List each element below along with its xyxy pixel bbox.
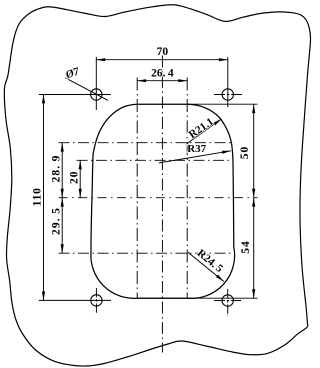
dim 29.5 line <box>61 198 63 254</box>
dim 26.4 line <box>137 80 187 82</box>
dim 70 line <box>96 59 228 61</box>
leader R21.1 <box>187 119 222 144</box>
svg-text:110: 110 <box>31 187 43 206</box>
dim 54 line <box>253 198 255 299</box>
leader R37 <box>159 151 231 163</box>
crosshair BL (merged with 110 extension) <box>39 299 111 301</box>
svg-text:54: 54 <box>240 240 252 254</box>
svg-text:28. 9: 28. 9 <box>51 155 63 183</box>
dim 50/54 top extension <box>187 103 258 105</box>
leader dia7 <box>65 78 108 101</box>
horizontal line y253 <box>59 252 234 254</box>
crosshair TR <box>214 94 242 96</box>
svg-text:70: 70 <box>157 46 169 58</box>
dim 28.9 line <box>61 143 63 198</box>
dim 110 line <box>43 95 45 301</box>
horizontal line y143 <box>59 142 231 144</box>
hidden vertical line left <box>136 78 138 299</box>
svg-text:26. 4: 26. 4 <box>151 67 174 79</box>
hole bottom-right <box>222 295 233 306</box>
dim 20 line <box>79 160 81 197</box>
middle hidden line y197.7 <box>59 197 258 199</box>
svg-text:29. 5: 29. 5 <box>51 207 63 235</box>
hole top-left <box>91 89 102 100</box>
svg-text:R37: R37 <box>187 143 206 155</box>
dim 50 line <box>253 104 255 198</box>
dim 50/54 bottom extension <box>137 297 258 299</box>
hidden vertical line right <box>186 78 188 299</box>
crosshair BR <box>214 300 241 302</box>
horizontal line y160 <box>77 159 233 161</box>
vertical centerline <box>161 56 163 353</box>
cutout outline <box>91 104 235 298</box>
hole bottom-left <box>91 295 102 306</box>
svg-text:50: 50 <box>239 146 251 160</box>
hole top-right <box>222 89 233 100</box>
svg-text:20: 20 <box>69 170 81 184</box>
leader R24.5 <box>188 252 224 281</box>
crosshair TL (merged with 110 extension) <box>39 94 111 96</box>
